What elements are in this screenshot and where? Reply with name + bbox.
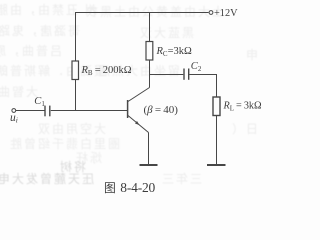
resistor RC xyxy=(146,42,153,61)
resistor RL xyxy=(213,97,220,116)
wire input to C1 xyxy=(16,110,45,112)
transistor Q1 xyxy=(128,88,150,133)
wire emitter down xyxy=(148,133,150,165)
wire top rail xyxy=(75,12,209,14)
capacitor C1 xyxy=(45,106,50,117)
svg-text:RC=3kΩ: RC=3kΩ xyxy=(156,46,193,58)
wire Rb branch upper xyxy=(75,13,77,62)
wire Rc branch lower xyxy=(149,60,151,88)
ground left emitter xyxy=(140,164,158,166)
terminal input ui xyxy=(12,109,16,113)
svg-text:(β = 40): (β = 40) xyxy=(144,104,179,116)
faint bleed-through text rows (decorative) xyxy=(0,1,97,18)
svg-text:+12V: +12V xyxy=(214,8,238,19)
wire Rb branch lower xyxy=(75,80,77,111)
terminal +12V xyxy=(209,11,213,15)
svg-text:RL = 3kΩ: RL = 3kΩ xyxy=(223,101,263,113)
svg-text:C1: C1 xyxy=(34,96,45,108)
wire Rc branch upper xyxy=(149,13,151,42)
capacitor C2 xyxy=(184,69,189,80)
svg-text:RB = 200kΩ: RB = 200kΩ xyxy=(81,65,132,77)
ground right xyxy=(207,164,226,166)
wire C2 to RL xyxy=(189,75,216,98)
svg-text:ui: ui xyxy=(10,112,18,125)
wire C2 branch horizontal xyxy=(150,74,184,76)
wire C1 to base xyxy=(51,110,127,112)
svg-text:图8-4-20: 图8-4-20 xyxy=(104,180,156,195)
resistor RB xyxy=(72,61,79,80)
wire RL to ground xyxy=(216,116,218,165)
svg-text:C2: C2 xyxy=(191,61,202,73)
